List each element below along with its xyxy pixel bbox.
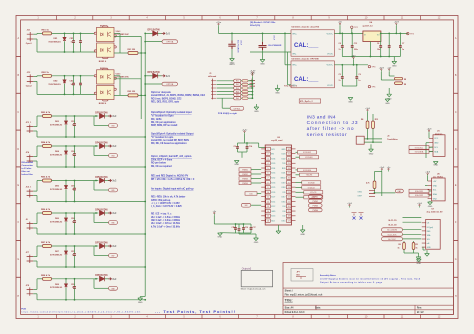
svg-text:Assembly Notes:: Assembly Notes: <box>320 274 337 277</box>
wire <box>52 75 97 77</box>
wire <box>52 180 99 182</box>
svg-text:3v3: 3v3 <box>112 244 117 248</box>
capacitor C11 100n <box>388 33 390 35</box>
svg-text:1: 1 <box>268 149 269 151</box>
wire <box>364 138 382 140</box>
wire <box>342 56 400 58</box>
wire <box>33 76 37 78</box>
capacitor C16 <box>243 224 245 228</box>
wire <box>296 169 298 171</box>
svg-text:220uF(C5): 220uF(C5) <box>250 25 260 27</box>
pin CS of U7 <box>422 222 426 224</box>
wire <box>52 145 99 147</box>
svg-text:IO21-SDA: IO21-SDA <box>415 151 424 154</box>
svg-text:IO36: IO36 <box>271 158 275 160</box>
svg-text:IN4: IN4 <box>112 156 115 158</box>
resistor RK4 3k <box>241 91 242 93</box>
wire <box>52 245 99 247</box>
pin IO21 of U6 <box>286 171 291 174</box>
capacitor C1 bulk <box>228 41 235 50</box>
ground <box>238 151 248 153</box>
wire <box>33 260 37 262</box>
pin GND2 of U6 <box>286 176 291 179</box>
svg-text:5V3V3NN-3G: 5V3V3NN-3G <box>50 221 63 223</box>
svg-text:C5: C5 <box>339 74 341 76</box>
svg-text:GND: GND <box>392 66 397 68</box>
svg-text:GND: GND <box>369 153 374 155</box>
svg-text:+5V: +5V <box>387 67 391 69</box>
pin IO22 of U6 <box>286 157 291 160</box>
title block <box>283 263 454 315</box>
pin mB of U7 <box>422 242 426 244</box>
svg-text:Opto3/Opto4: Optically isolate: Opto3/Opto4: Optically isolated Output <box>151 132 194 135</box>
svg-text:KTL_RptCu_2: KTL_RptCu_2 <box>300 100 313 103</box>
pin SDA of U5 <box>428 193 432 195</box>
wire <box>140 296 145 298</box>
capacitor C9 1u <box>356 64 358 66</box>
wire <box>284 33 286 64</box>
wire <box>33 223 37 225</box>
svg-text:220k, BCP > 4-5mm: 220k, BCP > 4-5mm <box>151 158 172 161</box>
wire <box>114 75 120 77</box>
pin IO33 of U6 <box>266 181 271 184</box>
svg-text:20: 20 <box>288 206 290 208</box>
capacitor C13 100u <box>351 33 353 35</box>
power +3v3 <box>428 131 430 133</box>
svg-text:DE, CE per application: DE, CE per application <box>151 121 176 124</box>
svg-text:U2 DCDC_daumler_dauxOV5: U2 DCDC_daumler_dauxOV5 <box>292 27 320 29</box>
svg-text:29: 29 <box>288 163 290 165</box>
ground <box>425 184 428 186</box>
ground <box>255 104 257 107</box>
power +3.3v pull-up rail <box>251 75 253 77</box>
svg-text:PWM2: PWM2 <box>242 174 247 176</box>
wire <box>114 32 120 34</box>
global label IN6 <box>234 97 241 100</box>
power +3v3 arrow <box>108 179 111 182</box>
wire <box>248 80 252 82</box>
svg-text:C8: C8 <box>234 146 236 148</box>
wire <box>33 80 37 82</box>
pin +5V of U5 <box>428 180 432 182</box>
global label IN5 <box>234 93 241 96</box>
svg-text:3v3: 3v3 <box>112 211 117 215</box>
power +3v3 <box>427 174 429 176</box>
svg-text:t/k./ 1.1uF -> 4.5ms / 150Hz: t/k./ 1.1uF -> 4.5ms / 150Hz <box>151 216 181 219</box>
wire <box>33 288 37 290</box>
svg-text:IO18-CK: IO18-CK <box>308 187 316 189</box>
test point TP2 <box>351 26 353 28</box>
svg-text:1.7V 35BT-5HC: 1.7V 35BT-5HC <box>116 34 130 36</box>
wire <box>217 87 234 89</box>
svg-text:GND: GND <box>385 103 390 105</box>
svg-text:RE1 1k: RE1 1k <box>42 29 50 31</box>
svg-text:GND: GND <box>433 165 438 167</box>
svg-text:RX0: RX0 <box>282 168 286 170</box>
global label PWM4 <box>308 208 322 212</box>
svg-text:IN2: IN2 <box>236 84 239 86</box>
svg-text:t_h_4mA = 0.15*3.3V = 0.825: t_h_4mA = 0.15*3.3V = 0.825 <box>151 205 183 208</box>
label IO13-SD2 <box>298 151 317 154</box>
svg-text:Id: 1/2: Id: 1/2 <box>417 312 424 314</box>
capacitor C1A 1u <box>238 224 240 228</box>
pin 3V3 of U6 <box>266 147 271 150</box>
svg-text:GPIO: 45k pull-up: GPIO: 45k pull-up <box>151 199 171 202</box>
pin IO35 of U6 <box>266 171 271 174</box>
power +V5a input <box>218 25 220 27</box>
pin GND of U1 <box>429 142 433 144</box>
label PWM4 <box>239 181 251 184</box>
svg-text:IO0: IO0 <box>250 193 253 195</box>
resistor R5 1k <box>413 241 415 243</box>
jumper JP1 <box>352 213 357 216</box>
wire <box>33 156 37 158</box>
pin IO19 of U6 <box>286 181 291 184</box>
svg-text:... Test Points, Test Points!!: ... Test Points, Test Points!! <box>155 309 235 314</box>
ground <box>370 144 372 149</box>
resistor R12 4.7k <box>381 172 383 197</box>
svg-text:RE1 and RE2 Digital in, NO2V5: RE1 and RE2 Digital in, NO2V5 PV <box>151 174 189 177</box>
svg-text:TouchMeter: TouchMeter <box>387 138 398 141</box>
global label GLC1-DC <box>382 237 403 241</box>
svg-text:Connection to J3: Connection to J3 <box>307 120 358 126</box>
wire <box>33 38 37 40</box>
ground <box>239 233 256 235</box>
svg-text:+3v3: +3v3 <box>365 108 371 110</box>
svg-text:22: 22 <box>288 197 290 199</box>
ground <box>236 232 252 234</box>
global label OPTOA <box>145 41 162 43</box>
svg-text:5V3V3NN-3G: 5V3V3NN-3G <box>49 41 62 43</box>
wire rail <box>140 53 142 119</box>
wire <box>381 32 408 34</box>
svg-text:U3 DCDC_daumler_HPV10W: U3 DCDC_daumler_HPV10W <box>292 58 319 60</box>
pin IO4 of U6 <box>286 205 291 208</box>
svg-text:5V3V3NN-3G: 5V3V3NN-3G <box>50 154 63 156</box>
svg-text:GLC1-CS: GLC1-CS <box>388 220 397 222</box>
svg-text:+3V3: +3V3 <box>394 22 400 24</box>
wire <box>251 173 261 175</box>
svg-text:5V3V3NN-3G: 5V3V3NN-3G <box>50 189 63 191</box>
capacitor C5 7u <box>341 64 343 66</box>
svg-text:CAL:___: CAL:___ <box>294 43 319 49</box>
connector JC3_1 <box>27 125 34 133</box>
svg-text:RO, 1k/5k: RO, 1k/5k <box>151 119 162 121</box>
svg-text:1k: 1k <box>416 247 418 249</box>
svg-text:IN1: IN1 <box>236 81 239 83</box>
wire <box>429 151 433 153</box>
power +3v3 arrow <box>162 32 165 35</box>
svg-text:IO26: IO26 <box>271 192 275 194</box>
connector J2 +3.3V aux <box>252 73 254 75</box>
svg-text:(W) Rocket L-11PHC 220u: (W) Rocket L-11PHC 220u <box>250 21 276 24</box>
global label IN2 <box>234 83 241 86</box>
global label IN5 <box>93 181 95 191</box>
svg-text:C6: C6 <box>377 43 379 45</box>
pin IO5 of U6 <box>286 190 291 193</box>
ground <box>422 247 424 250</box>
pin IO32 of U6 <box>266 176 271 179</box>
wire <box>217 91 234 93</box>
wire <box>248 97 252 99</box>
svg-text:GND: GND <box>281 149 286 151</box>
pin TX0 of U6 <box>286 162 291 165</box>
svg-text:VIN-: VIN- <box>292 54 296 56</box>
label IO21-SDA <box>409 150 429 154</box>
wire <box>257 193 261 195</box>
power +5V <box>339 24 341 26</box>
capacitor C8 1u <box>237 143 239 147</box>
svg-text:IO39: IO39 <box>271 163 275 165</box>
svg-text:GND: GND <box>234 164 239 166</box>
capacitor C14 10u <box>246 143 248 147</box>
pin VCC of U1 <box>429 137 433 139</box>
power +3v3 arrow <box>108 145 111 148</box>
svg-text:GND1: GND1 <box>229 64 235 66</box>
svg-text:IO19-MI: IO19-MI <box>308 182 315 184</box>
pin IO2 of U6 <box>286 214 291 217</box>
global label PWM2 <box>308 199 322 203</box>
svg-text:GND: GND <box>138 302 143 304</box>
ground <box>388 88 390 94</box>
pin IO14 of U6 <box>266 200 271 203</box>
svg-text:"b" location for opto: "b" location for opto <box>151 136 174 139</box>
svg-text:k.7k/ 1.0uF -> 3ms / 33.9Hz: k.7k/ 1.0uF -> 3ms / 33.9Hz <box>151 225 181 228</box>
svg-text:3: 3 <box>268 158 269 160</box>
svg-text:RE7 4.7k: RE7 4.7k <box>41 241 51 244</box>
svg-text:GLC1-CD: GLC1-CD <box>388 224 397 226</box>
svg-text:3v3: 3v3 <box>166 32 171 36</box>
connector JC4 <box>27 155 34 163</box>
wire <box>248 94 252 96</box>
wire <box>33 195 37 197</box>
svg-text:OPTO1: OPTO1 <box>234 108 242 110</box>
svg-text:7u: 7u <box>339 80 341 82</box>
svg-text:IO27: IO27 <box>271 197 275 199</box>
svg-text:DP7 BAT46: DP7 BAT46 <box>95 241 108 244</box>
global label OPTOB <box>145 83 162 85</box>
svg-text:IN3 and IN4: IN3 and IN4 <box>22 161 34 164</box>
ground <box>385 99 390 102</box>
svg-text:IN5: IN5 <box>236 95 239 97</box>
svg-text:GND: GND <box>300 234 305 236</box>
svg-text:VOUT+: VOUT+ <box>326 65 334 67</box>
wire <box>33 190 37 192</box>
svg-text:IO12: IO12 <box>271 206 275 208</box>
svg-text:PWM4: PWM4 <box>313 210 318 212</box>
wire <box>251 182 261 184</box>
label TX0-RX <box>300 173 319 176</box>
power +3v <box>388 170 390 172</box>
ground <box>393 57 395 62</box>
svg-text:IO13: IO13 <box>271 216 275 218</box>
svg-text:4: 4 <box>268 163 269 165</box>
optocoupler BON1 <box>103 56 109 59</box>
wire <box>33 33 37 35</box>
svg-text:IN7: IN7 <box>112 256 115 258</box>
ground GND1 <box>277 85 279 89</box>
pin 5 of J1 <box>211 94 216 96</box>
pin 3 of J1 <box>211 87 216 89</box>
svg-text:3v3: 3v3 <box>112 277 117 281</box>
test point TP5 <box>368 85 370 87</box>
svg-text:OPTOB: OPTOB <box>166 84 174 86</box>
label IO0 <box>245 192 257 195</box>
svg-text:RO1 inst. BOP3, BON2, CE2: RO1 inst. BOP3, BON2, CE2 <box>151 97 182 100</box>
svg-text:R13: R13 <box>375 119 378 121</box>
global label IN4 <box>234 90 241 93</box>
svg-text:5V3V3NN-3G: 5V3V3NN-3G <box>50 287 63 289</box>
svg-text:TX0: TX0 <box>282 163 285 165</box>
svg-text:19: 19 <box>288 211 290 213</box>
svg-text:31: 31 <box>288 154 290 156</box>
global label IN7 <box>93 246 95 256</box>
svg-text:GND: GND <box>275 93 280 95</box>
svg-text:32: 32 <box>288 149 290 151</box>
svg-text:IO0: IO0 <box>282 211 285 213</box>
svg-text:BON1 6: BON1 6 <box>99 61 107 63</box>
svg-text:tvDtouad: tvDtouad <box>208 75 217 78</box>
svg-text:RE5 4.7k: RE5 4.7k <box>41 176 51 179</box>
svg-text:Sheet: /: Sheet: / <box>285 290 294 293</box>
wire <box>296 191 304 193</box>
svg-text:C4: C4 <box>339 42 341 45</box>
connector JC2 <box>27 74 34 83</box>
pin GND of U6 <box>286 147 291 150</box>
svg-text:RE / CE -> tau / f_c: RE / CE -> tau / f_c <box>151 213 172 216</box>
svg-text:IO19: IO19 <box>281 182 285 184</box>
wire <box>52 32 97 34</box>
svg-text:Date:: Date: <box>315 307 321 310</box>
svg-text:install RR1-8, J1, BOP1, BON1,: install RR1-8, J1, BOP1, BON1, BOP2, BON… <box>151 94 206 97</box>
svg-text:+3v3: +3v3 <box>417 203 423 205</box>
svg-text:"a" location for Opto: "a" location for Opto <box>151 115 174 118</box>
svg-text:26: 26 <box>288 177 290 179</box>
test point TP3 <box>368 65 370 67</box>
svg-text:23: 23 <box>288 192 290 194</box>
svg-text:VOUT+: VOUT+ <box>326 34 334 36</box>
resistor RK1 3k <box>241 80 242 82</box>
svg-text:before filter: before filter <box>22 173 34 176</box>
pin IO15 of U6 <box>286 219 291 222</box>
svg-text:IO33: IO33 <box>271 182 275 184</box>
svg-text:SD2: SD2 <box>271 221 275 223</box>
svg-text:18: 18 <box>288 216 290 218</box>
svg-text:Connection: Connection <box>22 164 34 167</box>
svg-text:IO17: IO17 <box>281 197 285 199</box>
wire <box>33 256 37 258</box>
svg-text:D: D <box>455 148 457 151</box>
svg-text:G: G <box>455 258 457 261</box>
svg-text:100uF: 100uF <box>239 40 241 46</box>
svg-text:RE4 4.7k: RE4 4.7k <box>41 141 51 144</box>
pin SDA of U7 <box>422 234 426 236</box>
svg-text:IO13-SD2: IO13-SD2 <box>303 152 311 154</box>
svg-text:v3 (9V Supply) headers must be: v3 (9V Supply) headers must be installed… <box>320 277 421 280</box>
svg-text:Output Drivers according to ta: Output Drivers according to tables one 2… <box>320 281 382 284</box>
svg-text:nttps.//www.somakole/help/slid: nttps.//www.somakole/help/slides-to-obok… <box>21 311 140 314</box>
ground <box>404 252 414 254</box>
wire <box>248 91 252 93</box>
svg-text:25: 25 <box>288 182 290 184</box>
global label OA1 <box>395 189 403 193</box>
label IO18-CK <box>302 186 321 189</box>
title block rows <box>283 288 454 310</box>
power +3v <box>213 213 215 215</box>
svg-text:7u: 7u <box>339 49 341 51</box>
ground GND1 <box>262 50 264 59</box>
wire <box>429 190 432 192</box>
svg-text:GN2: GN2 <box>433 199 437 201</box>
svg-text:OA1: OA1 <box>397 190 401 193</box>
svg-text:2: 2 <box>268 154 269 156</box>
svg-text:t/k./ 1.0uF -> 47ms / 13.5Hz: t/k./ 1.0uF -> 47ms / 13.5Hz <box>151 222 181 225</box>
svg-text:JC8: JC8 <box>26 285 29 287</box>
pin GND of U6 <box>266 209 271 212</box>
label PWM2 <box>239 172 251 175</box>
svg-text:An inputs: Digital input with: An inputs: Digital input with uC pull-up <box>151 187 194 190</box>
svg-text:IO23: IO23 <box>281 154 285 156</box>
resistor RK5 3k <box>241 94 242 96</box>
power +3v3 arrow <box>162 75 165 78</box>
svg-text:V.2k3: V.2k3 <box>116 73 121 75</box>
svg-text:6: 6 <box>268 173 269 175</box>
svg-text:OPTOA: OPTOA <box>166 41 174 44</box>
svg-text:+3v3: +3v3 <box>347 203 353 205</box>
power +9V <box>353 58 355 60</box>
wires to OLED <box>403 217 422 219</box>
capacitor C15 <box>235 224 237 228</box>
svg-text:IO22: IO22 <box>281 158 285 160</box>
pin 2 of J1 <box>211 83 216 85</box>
svg-text:16: 16 <box>267 221 269 223</box>
svg-text:Outputs3: Outputs3 <box>242 267 252 270</box>
svg-text:IO23-MO: IO23-MO <box>305 157 313 159</box>
svg-text:Size: A4: Size: A4 <box>285 307 295 310</box>
wire <box>251 204 261 206</box>
wire <box>217 94 234 96</box>
svg-text:+3.3v: +3.3v <box>250 73 256 75</box>
svg-text:series resistor: series resistor <box>307 132 347 138</box>
power +3.3v <box>244 132 246 134</box>
power +3v3 arrow <box>108 245 111 248</box>
wire <box>251 169 261 171</box>
svg-text:RO, DE, CE based as applicatio: RO, DE, CE based as application <box>151 142 187 145</box>
pin IO26 of U6 <box>266 190 271 193</box>
svg-text:D: D <box>17 148 19 151</box>
pin IO23 of U6 <box>286 152 291 155</box>
svg-text:C: C <box>17 111 19 114</box>
svg-text:JC5_1: JC5_1 <box>26 187 32 189</box>
pin DC(got) of U7 <box>422 226 426 228</box>
svg-text:C13: C13 <box>354 43 357 45</box>
svg-text:GND: GND <box>427 247 432 249</box>
pin IO27 of U6 <box>266 195 271 198</box>
wire <box>296 186 302 188</box>
pin GN2 of U5 <box>428 198 432 200</box>
svg-text:DP6 BAT46: DP6 BAT46 <box>95 208 108 211</box>
svg-text:RE1--RE8: 10k is ok, 4.7k bett: RE1--RE8: 10k is ok, 4.7k better <box>151 196 185 199</box>
wire <box>342 85 357 87</box>
svg-text:+3v3: +3v3 <box>425 172 431 174</box>
svg-text:3v3: 3v3 <box>112 179 117 183</box>
svg-text:IN5: IN5 <box>112 190 115 192</box>
connector JC8 <box>27 287 34 295</box>
wire <box>52 278 99 280</box>
svg-text:filter out: filter out <box>22 170 31 173</box>
svg-text:Opto2: Opto2 <box>26 84 33 87</box>
power +3v3 arrow <box>108 212 111 215</box>
